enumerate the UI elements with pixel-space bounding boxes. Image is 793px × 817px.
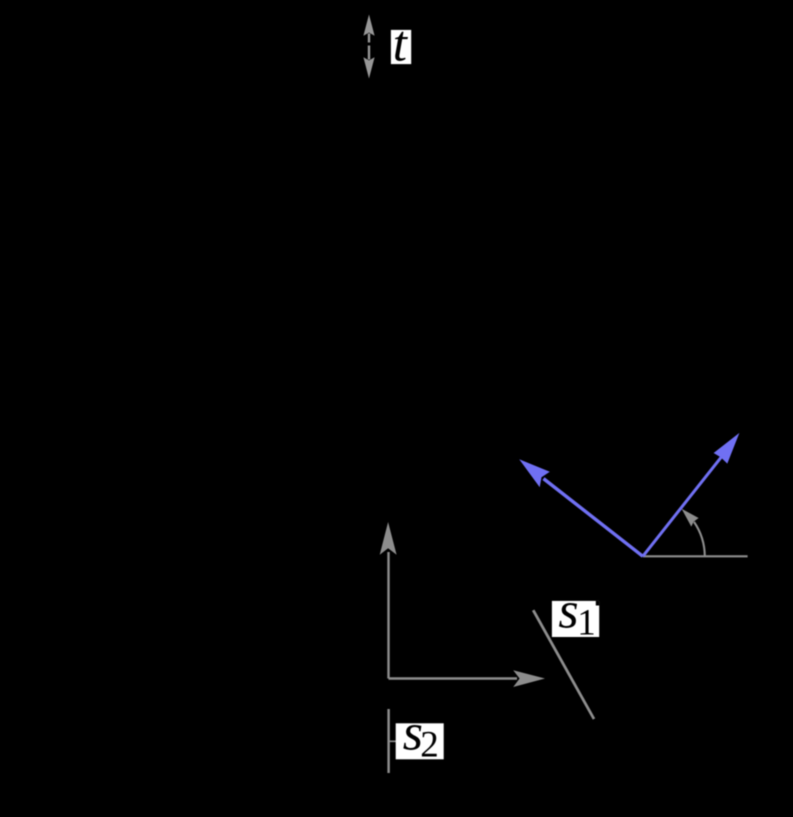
svg-text:1: 1	[577, 603, 596, 644]
horizontal reference line	[643, 555, 748, 557]
dimension double-arrow t	[363, 15, 374, 79]
angle arc arrowhead	[682, 509, 699, 527]
label s2 box	[396, 723, 444, 759]
blue vector right	[643, 456, 722, 556]
line s1	[533, 610, 594, 719]
coordinate axes: vertical arrow	[380, 522, 545, 687]
leader dash to s2 label	[389, 740, 397, 742]
label t box	[391, 30, 411, 64]
angle arc	[694, 522, 705, 556]
svg-text:2: 2	[420, 724, 439, 765]
label s1 box	[552, 601, 599, 637]
svg-text:s: s	[558, 583, 578, 640]
line s2	[387, 709, 390, 773]
blue vector left	[519, 433, 739, 556]
svg-text:t: t	[393, 17, 409, 73]
coordinate axes: horizontal arrow	[389, 677, 518, 679]
